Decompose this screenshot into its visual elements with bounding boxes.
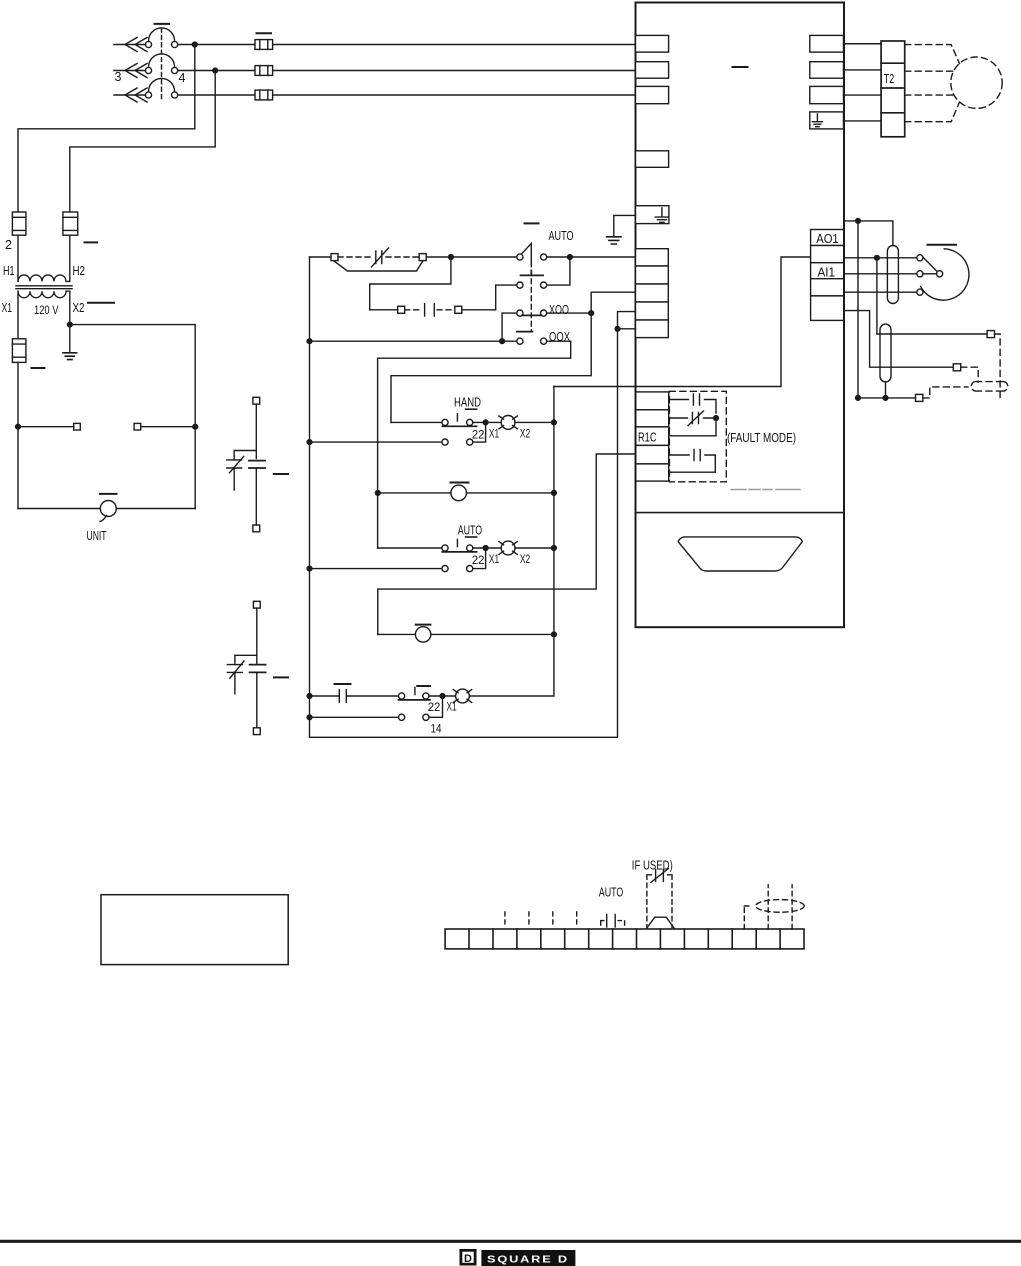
R1 terminal 1 [636,392,669,410]
junction dot right rail [552,491,557,496]
svg-text:OOX: OOX [549,329,570,344]
terminal square top [253,601,260,608]
control terminal D [636,302,669,320]
junction dot left [375,491,380,496]
coil X1 [456,689,470,703]
IF USED contact bars [656,870,664,882]
svg-text:X2: X2 [520,552,530,566]
wire to T2 strip 4 [844,120,882,122]
svg-text:AUTO: AUTO [458,523,483,538]
svg-text:14: 14 [431,722,442,736]
stub terminal 6 [576,912,578,928]
pole 3 arc [149,78,175,91]
pilot light tail [100,516,107,522]
NC contact stub [234,672,236,693]
lower contact link wire [473,425,486,442]
svg-text:22: 22 [472,553,485,567]
pushbutton contacts [399,693,405,699]
svg-text:X1: X1 [2,301,13,315]
svg-text:AUTO: AUTO [599,884,624,899]
fuse FU1 [12,212,26,235]
riser terminal 14 dashed [767,885,769,929]
terminal square top [253,397,260,404]
junction dot R1 [714,416,719,421]
svg-text:T2: T2 [884,71,895,86]
wire coil to rail [515,547,554,549]
terminal +10 [811,246,844,263]
underline [466,536,477,538]
NC contact bars [227,665,242,673]
lower contacts [442,439,448,445]
redacted label above pilot [416,624,431,626]
motor circle dashed [951,57,1002,108]
second row contacts [399,714,405,720]
terminal square B [419,254,426,261]
terminal L3 [636,86,669,103]
junction dot [440,694,445,699]
NC contact slash [230,661,244,678]
wire L1 [178,44,636,46]
pushbutton stem [456,539,458,546]
output terminal T1 [810,35,844,52]
terminal square ref [987,331,994,338]
svg-text:SQUARE D: SQUARE D [487,1254,569,1266]
terminal square C [398,306,405,313]
terminal AI2 [811,296,844,321]
dashed from square ai [961,367,979,382]
wire to pushbutton [346,695,398,697]
svg-text:HAND: HAND [454,395,481,410]
terminal square drain [916,394,923,401]
PE glyph [812,114,822,127]
redacted label above aux contact [335,683,351,685]
svg-text:UNIT: UNIT [87,529,107,543]
terminal L1 [636,35,669,52]
NC contact slash [230,457,244,473]
pilot light [415,627,430,642]
wire L2 lead-in [114,70,146,72]
drive controller block U1 [554,3,844,628]
wire X1 [17,291,19,339]
R1 terminal 2 [636,410,669,427]
wire H2 [69,235,71,281]
jumper bracket under contact [335,262,423,272]
rung wire [378,547,442,549]
svg-text:H1: H1 [3,264,15,278]
rung4 wire from rail [310,340,517,342]
terminal AO1 [811,230,844,246]
rung wire [378,633,554,635]
cable shield capsule 1 [887,246,898,304]
wire COM to pot bottom [844,291,917,293]
pilot light UNIT [100,501,116,517]
junction dot staircase B [589,311,594,316]
redacted label right of X2 [88,302,114,304]
wire X2 to node [69,291,71,324]
stub terminal 4 [528,912,530,928]
wire +10 to pot top [844,257,917,259]
wire AI2 branch [844,311,954,368]
square d logo text [481,1250,575,1266]
wire to coil [473,547,501,549]
rung wire [310,695,340,697]
svg-text:120 V: 120 V [34,303,59,317]
output terminal T3 [810,86,844,103]
AUTO rung [307,523,556,572]
svg-text:X1: X1 [489,427,499,441]
thermostat element 1 [227,397,288,532]
junction dot left rail [307,566,312,571]
control terminal B [636,266,669,284]
lower terminal strip [445,858,804,949]
selector mech link dashed [530,262,532,331]
wire down [256,608,258,665]
NC contact slash [372,248,389,267]
wire X2 node to right rail [70,325,195,509]
R1 NC contact bars [692,413,698,424]
svg-text:XOO: XOO [549,302,569,317]
wire L1 lead-in [114,44,146,46]
wire terminal E [618,328,636,330]
pot wiper line [923,257,937,271]
junction dot +10 [875,255,880,260]
wire to T2 strip 3 [844,94,882,96]
terminal strip body [445,929,804,949]
output terminal PE [810,112,844,129]
coil X1 [501,541,515,555]
R2 NO contact bars [694,450,700,461]
svg-text:22: 22 [472,427,485,441]
svg-text:X2: X2 [73,301,85,315]
AUTO contact bars [607,915,616,927]
svg-text:4: 4 [179,71,186,85]
branch to NC contact [235,655,257,664]
junction on L1 [192,42,197,47]
pushbutton HAND contacts [442,419,448,425]
wire down [255,404,257,458]
wire to T2 strip 2 [844,69,882,71]
terminal DC bus [636,151,669,168]
NC contact stub [233,468,235,490]
redacted label above pot [928,244,957,246]
left rail [309,257,311,737]
feedback wire from R1 contact [378,454,636,634]
svg-text:AI1: AI1 [818,264,836,279]
junction dot rail rung4 [307,339,312,344]
R1 NO contact bars [693,394,699,405]
junction dot rung1 [449,255,454,260]
branch to NC contact [234,451,256,460]
coil ticks [499,416,517,429]
disconnect switch QS1 [114,24,186,102]
wire tap L2 to H2 [70,71,215,213]
svg-text:X2: X2 [520,427,530,441]
junction dot 22/X1 [483,420,488,425]
pole 3 contacts [145,92,151,98]
terminal square D [455,306,462,313]
ladder bottom wire [310,329,618,738]
motor lead 2 dashed [905,70,954,72]
lower contact wire from left rail [310,568,442,570]
junction dot DE [615,326,620,331]
R1 NC contact wire [669,417,716,419]
terminal strip dividers [469,929,780,949]
wire PE to earth [614,215,636,236]
selector row3 bar [523,314,542,316]
UNIT pilot circuit [16,362,198,543]
wire branch from rung1 to capacitor branch [370,257,451,310]
wire to T2 strip 1 [844,43,882,45]
fuse FU2 [63,212,78,235]
fuse F1 [255,40,273,50]
redacted label bar above disconnect [155,23,170,25]
junction dot [856,219,861,224]
junction dot drain 2 [883,396,888,401]
dashed from drain square [923,387,968,398]
wire X1 fuse to bottom [17,362,19,508]
terminal L2 [636,62,669,78]
keypad section divider [636,512,845,514]
wire down to bottom square [255,468,257,525]
pushbutton NO bar [442,425,476,427]
riser terminal 15 dashed [791,885,793,929]
wire node to terminal [18,426,74,428]
pushbutton NO bar [442,551,476,553]
wire L2 [178,70,636,72]
chevron arrows pole 1 [125,38,147,52]
redacted label above right contact [417,685,430,687]
wire row2 left [496,285,517,310]
square d logo mark [460,1249,477,1266]
pot terminal mid [917,271,923,277]
junction dot rail [552,632,557,637]
lower contact wire from rail [310,441,442,443]
wire square B to selector [426,256,517,258]
twisted shield ellipse dashed [756,900,805,913]
lower contacts [442,566,448,572]
wire H1 [17,235,19,281]
chevron arrows pole 2 [125,64,147,78]
relay dashed enclosure [669,391,726,482]
svg-text:22: 22 [428,700,441,714]
wire coil to right rail [515,421,554,423]
wire AI1 to pot wiper [844,273,917,275]
internal wire AO1 common to ladder [554,257,811,387]
three phase lines to drive [178,33,636,100]
junction dot rail [307,715,312,720]
pole 2 arc [149,54,175,67]
customer cable shield dashed capsule [971,382,1008,392]
pot wiper terminal [937,271,943,277]
wire rung1 to drive [547,256,636,258]
svg-text:D: D [464,1253,472,1265]
terminal block T2 [881,41,905,137]
selector row2 bar [521,271,544,276]
earth ground symbol [607,237,621,244]
coil ticks [453,690,471,703]
wire to coil [473,421,501,423]
terminal square left [74,423,81,430]
terminal COM [811,279,844,296]
shield wire top [844,221,893,246]
selector row4 bar [517,331,533,333]
note box [101,895,288,965]
stub terminal 13 dashed [744,906,752,929]
terminal AI1 [811,263,844,279]
wire row2 right to rung1 [547,260,570,285]
redacted label above fuse F1 [257,32,272,34]
control terminal A [636,249,669,266]
junction dot [483,546,488,551]
junction on L2 [213,68,218,73]
stub terminal 5 [552,912,554,928]
dashed wire [437,309,455,311]
wire terminal to right rail [141,426,196,428]
fuse F3 [255,90,273,100]
svg-text:3: 3 [115,70,122,84]
bottom rung [307,329,617,738]
svg-text:AO1: AO1 [816,231,839,246]
terminal square right [134,423,141,430]
selector row2 contacts [517,282,523,288]
transformer T1 primary winding [18,275,70,282]
wire bottom [18,508,195,510]
AUTO contact dashes [601,921,625,928]
wire wiper to terminal [923,273,937,275]
redacted label right of FU2 [85,241,98,243]
junction dot rail [307,440,312,445]
wire X2 node to ground [69,325,71,353]
pushbutton AUTO contacts [442,545,448,551]
pushbutton stem [414,687,416,694]
control transformer branch [2,45,216,509]
common drain wire [858,397,916,399]
terminal PE left [636,206,669,224]
fuse FU3 [12,339,26,363]
coil ticks [499,542,517,555]
redacted label right [274,676,288,678]
R1 NC slash [688,411,704,426]
stub terminal 3 [504,912,506,928]
jumper trapezoid [647,917,674,928]
junction dot rung4 [500,339,505,344]
transformer T1 core [16,286,72,289]
motor output section [810,35,1002,136]
redacted drive label [733,66,748,68]
dashed customer NC contact [338,256,371,258]
PE terminal ground glyph [655,208,668,223]
redacted label below FU3 [32,367,45,369]
junction left node [16,424,21,429]
NC contact bars [227,460,242,468]
pot terminal top [917,255,923,261]
thermostat element 2 [227,601,288,734]
underline [466,408,477,410]
junction dot drain 1 [856,396,861,401]
pushbutton stem [456,414,458,421]
capacitor bars [250,665,266,673]
svg-text:2: 2 [5,238,12,252]
R1 terminal 5 [636,464,669,481]
motor lead 1 dashed [905,45,960,64]
R2 NO contact wire [669,455,716,472]
second row link wire [429,699,443,718]
block outline [636,3,845,628]
junction dot rail [552,546,557,551]
aux contact bars [339,690,346,702]
wire row3 right to staircase B [547,312,592,314]
control ladder [307,223,635,737]
ground symbol at X2 [63,353,77,360]
wire down to bottom square [256,672,258,727]
wire terminal D [618,312,636,329]
redacted label right [274,473,288,475]
rung wire [378,492,554,494]
redacted text remnant [731,489,800,491]
wire L3 [178,94,636,96]
dashed to square B [386,256,419,258]
wire coil to right rail up [469,637,554,696]
terminal square bottom [253,525,260,532]
wire to coil [429,695,456,697]
pole 1 arc [149,28,175,41]
wire row3 left down to rung4 [502,313,517,341]
rung 1 wire start [310,256,332,258]
capacitor contact bars [425,304,435,316]
terminal square ai [953,364,960,371]
wire +10 branch down [877,258,987,334]
selector row3 contacts XOO [517,310,523,316]
redacted label above selector [525,222,539,224]
pilot light [451,485,467,501]
pilot rung 2 [378,454,636,642]
redacted label above pilot [451,482,469,484]
R1 terminal 4 [636,445,669,464]
IF USED dashed box [647,875,672,928]
fuse F2 [255,66,273,76]
junction right node [193,424,198,429]
svg-text:X1: X1 [489,552,499,566]
terminal square A [331,254,338,261]
staircase B wire [391,292,636,422]
second row wire from rail [310,716,399,718]
pole 1 contacts [145,41,151,47]
potentiometer body [921,249,969,300]
control terminal C [636,284,669,302]
R1 NO contact wire [669,400,716,414]
terminal square bottom [253,728,260,735]
lower contact link wire [473,551,486,569]
dashed wire [405,309,422,311]
analog IO section [811,219,1008,402]
wire tap L1 to H1 [18,45,195,213]
svg-text:(FAULT MODE): (FAULT MODE) [727,430,796,445]
wire L3 lead-in [114,94,146,96]
selector lever [522,244,532,263]
rung wire [391,421,442,423]
R1 terminal R1C [636,427,669,446]
output terminal T2 [810,62,844,78]
svg-text:R1C: R1C [638,430,657,445]
svg-text:AUTO: AUTO [549,228,574,243]
mechanical link dashed [161,28,163,100]
shield 2 drain [885,382,887,398]
R1C common wire [669,418,716,436]
wire square D to row2 [462,309,496,311]
motor lead 3 dashed [905,94,954,96]
T2 dividers [881,63,905,113]
pushbutton NO bar [399,699,431,701]
